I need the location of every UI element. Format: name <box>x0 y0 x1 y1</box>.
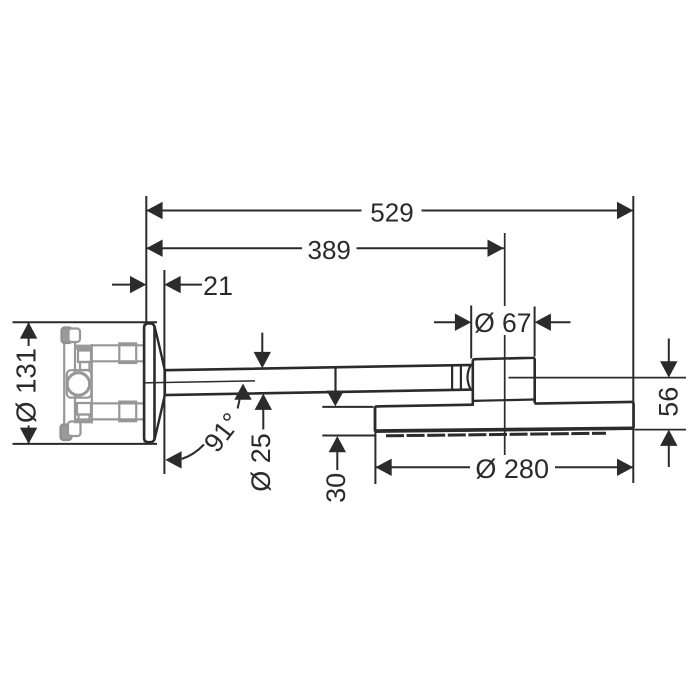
arm joint line sleeve left <box>451 365 453 390</box>
svg-text:Ø 25: Ø 25 <box>246 433 276 492</box>
dim 30 ext top <box>322 406 373 408</box>
dim 529 right arrow <box>617 202 633 219</box>
shower head slab fill <box>375 402 634 432</box>
dim 30 bottom tail <box>336 452 338 471</box>
svg-text:56: 56 <box>654 387 684 417</box>
dim O131 top arrow <box>20 322 37 338</box>
in-wall body (gray concealed installation unit) <box>61 328 144 441</box>
dim O25 top tail <box>261 333 263 353</box>
bracket top cap gray box <box>62 328 73 344</box>
ext line flange face (21) <box>163 270 165 474</box>
upper function block <box>78 351 91 363</box>
dim O25 up arrow <box>255 394 272 410</box>
svg-text:Ø 131: Ø 131 <box>11 348 42 423</box>
ext line 56 top (arm axis) <box>509 377 687 379</box>
ext line 56 bottom <box>635 429 687 431</box>
dim O280 line <box>375 466 470 468</box>
ext line O67 left <box>470 306 472 359</box>
dim O25 down arrow <box>254 352 271 368</box>
upper pipe coupling <box>119 343 136 363</box>
top cross band <box>74 345 92 350</box>
svg-text:30: 30 <box>321 473 351 503</box>
bottom cross band <box>74 418 92 423</box>
dim 56 bottom tail <box>668 445 670 467</box>
dim 30 down arrow <box>327 391 344 407</box>
dim 56 top tail <box>668 339 670 363</box>
connector entry curve <box>468 366 471 390</box>
dim 91 deg arrow <box>165 451 181 468</box>
dim 21 left tail <box>112 284 131 286</box>
lower supply pipe top edge <box>92 402 143 404</box>
dim 21 right tail <box>180 284 202 286</box>
shower arm tube <box>165 365 473 395</box>
ext line wall plane <box>145 196 147 323</box>
arm joint line sleeve right <box>460 365 462 390</box>
svg-text:389: 389 <box>308 235 351 265</box>
dim O67 left tail <box>434 321 456 323</box>
dim 21 left arrow <box>130 276 146 293</box>
connector block <box>473 358 535 405</box>
wall seal strip behind flange <box>144 324 147 443</box>
svg-text:21: 21 <box>203 271 233 301</box>
dim O67 left arrow <box>455 314 471 331</box>
dim 56 top arrow <box>660 361 677 377</box>
ext line head right plane <box>632 196 634 483</box>
dim O25 bottom tail <box>262 409 264 430</box>
arm joint line mid <box>334 367 336 392</box>
bracket bottom cap gray box <box>61 425 72 441</box>
head bottom thick edge <box>376 428 633 431</box>
dimension group <box>11 196 684 503</box>
dim 389 right arrow <box>488 240 504 257</box>
upper supply pipe bottom edge <box>92 360 143 362</box>
upper small block <box>80 362 90 370</box>
head boss step line <box>473 400 535 401</box>
spray face dashed band <box>386 433 606 436</box>
body front edge vertical <box>91 344 93 424</box>
dim 30 ext bottom <box>322 435 375 437</box>
lower pipe coupling <box>119 402 136 422</box>
ext line O131 bottom <box>13 443 158 445</box>
dim 389 left arrow <box>146 240 162 257</box>
dim 91 deg leader arc <box>182 445 204 460</box>
dim O280 right arrow <box>617 459 633 476</box>
upper supply pipe top edge <box>92 344 143 346</box>
dim 389 line <box>146 247 302 249</box>
bracket vertical bar <box>63 330 65 436</box>
valve square <box>67 370 92 398</box>
dim O131 bottom arrow <box>20 428 37 444</box>
dim O131 line bottom seg <box>28 426 30 444</box>
dim 21 right arrow <box>164 276 180 293</box>
lower function block <box>77 403 91 415</box>
dim 529 left arrow <box>146 202 162 219</box>
svg-text:529: 529 <box>370 198 413 228</box>
dim 56 bottom arrow <box>660 430 677 446</box>
bracket bottom cap white box <box>68 422 81 437</box>
svg-text:Ø 67: Ø 67 <box>474 308 531 338</box>
ext line O131 top <box>13 321 158 323</box>
valve circle <box>67 373 89 395</box>
lower supply pipe bottom edge <box>92 418 143 420</box>
flange cone to arm <box>154 326 164 440</box>
svg-text:91°: 91° <box>198 407 247 458</box>
dim O131 line top seg <box>28 322 30 346</box>
bracket top cap white box <box>69 329 81 343</box>
lower small block <box>79 415 90 422</box>
head centerline lower segment <box>504 335 506 455</box>
ext line O280 left <box>374 407 376 484</box>
dim 91 deg axis arrow <box>234 384 251 400</box>
dim O67 right arrow <box>535 314 551 331</box>
dim O67 right tail <box>550 321 571 323</box>
ext line O67 right <box>534 307 536 357</box>
head outline left part <box>375 402 634 432</box>
dim 529 line <box>146 210 361 212</box>
escutcheon flange plate <box>144 323 154 442</box>
dim 30 up arrow <box>329 436 346 452</box>
head centerline upper segment <box>504 233 506 306</box>
dim O280 left arrow <box>375 459 391 476</box>
dim 91 deg axis arrow tail <box>238 399 240 409</box>
arm centerline at flange <box>143 381 255 383</box>
svg-text:Ø 280: Ø 280 <box>475 454 549 484</box>
